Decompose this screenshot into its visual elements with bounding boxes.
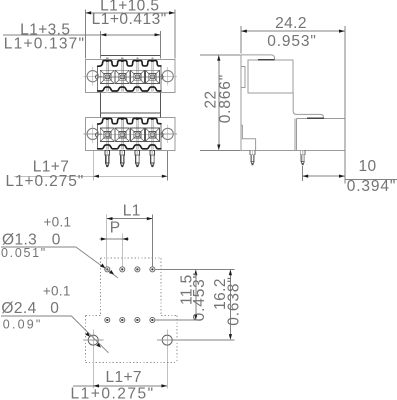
svg-text:L1+0.413": L1+0.413" xyxy=(92,11,167,28)
svg-text:0.866": 0.866" xyxy=(217,74,234,123)
svg-text:0.453": 0.453" xyxy=(191,272,208,321)
svg-text:P: P xyxy=(110,219,120,236)
svg-text:L1+0.275": L1+0.275" xyxy=(71,386,155,400)
svg-text:0.638": 0.638" xyxy=(226,276,243,325)
svg-text:24.2: 24.2 xyxy=(275,15,307,32)
svg-text:Ø2.4: Ø2.4 xyxy=(1,300,36,317)
svg-text:+0.1: +0.1 xyxy=(43,284,71,299)
svg-text:L1: L1 xyxy=(123,202,141,219)
svg-text:L1+7: L1+7 xyxy=(105,369,142,386)
svg-text:0.953": 0.953" xyxy=(267,33,316,50)
svg-text:L1+0.137": L1+0.137" xyxy=(4,36,85,53)
svg-text:10: 10 xyxy=(358,158,376,175)
svg-text:0: 0 xyxy=(50,300,59,317)
svg-text:0: 0 xyxy=(52,232,61,249)
svg-text:0.394": 0.394" xyxy=(347,178,396,195)
svg-text:0.09": 0.09" xyxy=(3,318,43,332)
svg-text:L1+0.275": L1+0.275" xyxy=(5,173,84,190)
svg-text:0.051": 0.051" xyxy=(1,246,47,260)
svg-text:+0.1: +0.1 xyxy=(43,214,71,229)
